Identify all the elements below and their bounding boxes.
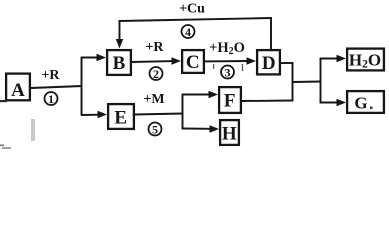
wire D right bbox=[280, 62, 294, 64]
scan speckle marks bbox=[31, 119, 35, 141]
box B bbox=[107, 50, 131, 75]
wire arrow to F bbox=[182, 94, 211, 96]
wire arrow to H2O bbox=[320, 58, 339, 60]
svg-text:+Cu: +Cu bbox=[179, 1, 205, 16]
wire EF branch vertical bbox=[182, 94, 184, 130]
svg-text:H: H bbox=[222, 124, 237, 145]
box F bbox=[219, 87, 241, 113]
svg-text:5: 5 bbox=[152, 123, 158, 137]
box C bbox=[182, 50, 204, 73]
wire B to C bbox=[131, 60, 174, 63]
wire arrow to G bbox=[320, 102, 339, 104]
node circled 2 bbox=[150, 67, 163, 81]
svg-text:+M: +M bbox=[143, 92, 164, 107]
wire mid connector bbox=[293, 81, 322, 84]
wire A to branch bbox=[31, 86, 82, 88]
wire feedback horizontal bbox=[119, 18, 272, 21]
box H bbox=[220, 120, 239, 145]
svg-text:G: G bbox=[354, 94, 367, 113]
svg-text:4: 4 bbox=[185, 25, 191, 39]
svg-text:+R: +R bbox=[41, 68, 60, 83]
wire arrow to E bbox=[81, 114, 100, 116]
wire E to branch bbox=[134, 114, 183, 115]
box H2O bbox=[347, 49, 384, 71]
svg-text:1: 1 bbox=[48, 92, 54, 106]
box D bbox=[257, 50, 280, 74]
wire arrow to B bbox=[81, 57, 99, 59]
svg-text:H2O: H2O bbox=[349, 51, 381, 71]
wire branch vertical bbox=[81, 57, 83, 116]
svg-text:E: E bbox=[114, 108, 127, 129]
svg-text:B: B bbox=[113, 53, 126, 74]
svg-text:F: F bbox=[224, 91, 236, 112]
svg-text:A: A bbox=[11, 80, 25, 101]
svg-text:2: 2 bbox=[153, 67, 159, 81]
wire feedback arrow down into B bbox=[119, 20, 121, 41]
wire C to D bbox=[204, 60, 249, 62]
svg-text:3: 3 bbox=[225, 66, 231, 80]
wire split vertical bbox=[320, 58, 322, 104]
svg-text:+H2O: +H2O bbox=[209, 40, 245, 57]
svg-text:D: D bbox=[262, 53, 276, 74]
wire F right bbox=[241, 100, 293, 103]
node circled 5 bbox=[149, 123, 162, 137]
svg-text:C: C bbox=[186, 52, 200, 73]
wire D top vertical bbox=[270, 17, 272, 50]
node circled 4 bbox=[182, 25, 195, 39]
box E bbox=[108, 104, 134, 129]
box G bbox=[347, 91, 384, 113]
node circled 1 bbox=[45, 92, 58, 106]
box A bbox=[6, 74, 30, 101]
wire join vertical bbox=[292, 62, 294, 101]
wire arrow to H bbox=[182, 128, 212, 130]
svg-text:+R: +R bbox=[145, 40, 164, 55]
node circled 3 bbox=[221, 66, 234, 80]
